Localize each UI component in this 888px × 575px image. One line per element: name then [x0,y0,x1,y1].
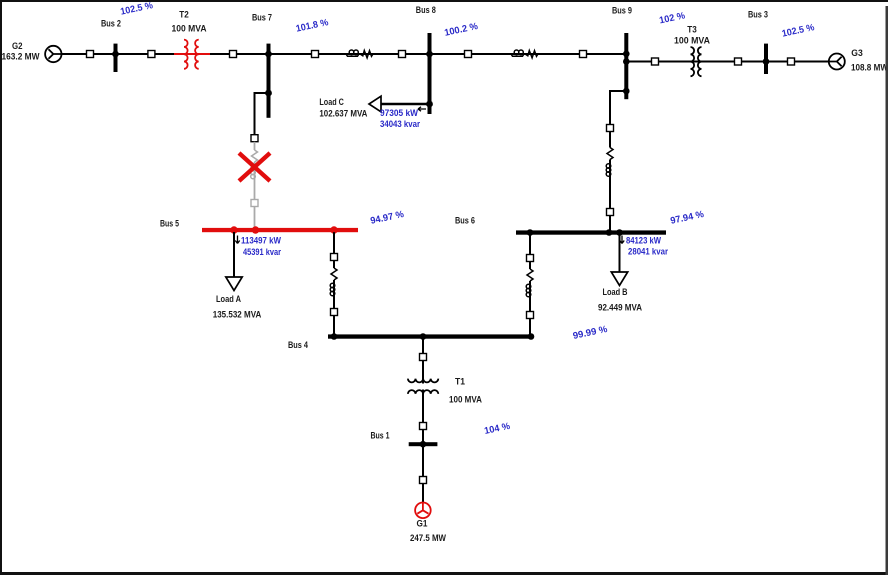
svg-text:247.5 MW: 247.5 MW [410,533,446,544]
svg-text:100 MVA: 100 MVA [172,23,207,34]
breaker Bus1-G1 [420,477,427,484]
breaker Bus9-T3 [652,58,659,65]
node Bus6 junction left [527,229,534,236]
bus Bus 1 [371,431,438,447]
svg-text:Bus 1: Bus 1 [371,431,391,442]
node Bus6 junction bus9 branch [606,229,613,236]
transformer T3 100 MVA [674,24,710,76]
frame border [0,0,888,2]
bus Bus 9 [612,5,632,99]
transformer T1 100 MVA [408,377,482,406]
node Bus4 junction right [528,333,535,340]
breaker Bus5 branch bottom [331,309,338,316]
breaker Bus6 branch top [527,255,534,262]
bus Bus 3 [748,9,768,74]
svg-text:135.532 MVA: 135.532 MVA [213,310,262,321]
node Bus9 junction T3 [623,58,630,65]
svg-text:100 MVA: 100 MVA [674,35,710,46]
line impedance coil (Bus6-Bus4) [526,284,531,297]
node Bus9 junction branch [623,88,630,95]
wire Bus9 to G3 line [626,61,829,63]
node Bus5 junction grey line [252,226,259,233]
node Bus5 junction loadA [230,226,237,233]
line impedance grey resistor [252,150,258,162]
svg-text:Bus 2: Bus 2 [101,18,121,29]
label Load C flow values [380,107,426,130]
breaker T2-Bus7 [230,51,237,58]
line impedance grey coil [251,166,256,179]
load Load A [213,232,262,321]
breaker line78-Bus8 [399,51,406,58]
load Load C arrow [319,96,429,119]
bus Bus 4 [288,334,532,351]
svg-text:28041 kvar: 28041 kvar [628,247,668,258]
generator G2 [2,41,62,63]
node Bus3 junction [763,58,770,65]
line impedance L78 coil [346,50,359,56]
svg-text:G1: G1 [417,519,429,530]
breaker Bus9 branch bottom [607,209,614,216]
node Bus7 junction branch [265,90,272,97]
wire de-energized grey to Bus5 [254,142,256,228]
svg-text:97305 kW: 97305 kW [380,108,418,119]
breaker T1-Bus1 [420,423,427,430]
svg-text:G2: G2 [12,41,23,52]
breaker Bus5 branch top [331,254,338,261]
svg-text:Bus 8: Bus 8 [416,5,436,16]
load Load B [598,234,642,314]
bus Bus 8 [416,5,436,114]
line impedance resistor (Bus9-Bus6) [607,148,613,160]
breaker T3-Bus3 [735,58,742,65]
label Load B flow values [620,236,668,258]
svg-text:Bus 6: Bus 6 [455,215,475,226]
breaker Bus7 branch [251,135,258,142]
generator G3 [829,48,888,73]
transformer T2 100 MVA [172,9,207,68]
svg-text:100 MVA: 100 MVA [449,395,482,406]
wire Bus6 to Bus4 branch [529,235,531,335]
svg-text:Bus 7: Bus 7 [252,12,272,23]
svg-text:113497 kW: 113497 kW [241,236,281,247]
breaker Bus8-line89 [465,51,472,58]
svg-text:G3: G3 [851,48,863,59]
svg-text:T3: T3 [687,24,697,35]
line impedance L89 coil [511,50,524,56]
breaker Bus3-G3 [788,58,795,65]
bus Bus 2 [101,18,121,72]
breaker Bus6 branch bottom [527,312,534,319]
wire Bus5 to Bus4 branch [333,232,335,334]
svg-text:Bus 5: Bus 5 [160,218,180,229]
svg-text:Bus 3: Bus 3 [748,9,768,20]
bus Bus 5 (red, energized fault) [160,218,358,232]
svg-text:Load B: Load B [603,287,628,298]
svg-text:102.637 MVA: 102.637 MVA [319,108,367,119]
svg-text:84123 kW: 84123 kW [626,236,661,247]
svg-text:Bus 4: Bus 4 [288,340,309,351]
wire T2 red line segment [174,53,210,55]
line impedance coil (Bus5-Bus4) [330,283,335,296]
breaker G2-Bus2 [87,51,94,58]
svg-text:108.8 MW: 108.8 MW [851,62,888,73]
breaker line89-Bus9 [580,51,587,58]
node Bus5 junction branch [330,226,337,233]
line impedance coil (Bus9-Bus6) [606,164,611,177]
svg-text:Bus 9: Bus 9 [612,5,632,16]
node Bus6 junction loadB [616,229,623,236]
wire Bus9 to Bus6 branch [610,91,626,230]
bus Bus 6 [455,215,666,234]
node Bus8 junction loadC [426,101,433,108]
node Bus1 junction [420,441,427,448]
node Bus2 junction [112,51,119,58]
line impedance resistor (Bus5-Bus4) [331,268,337,280]
node Bus8 junction top [426,51,433,58]
node Bus9 junction main [623,51,630,58]
wire Bus7 branch jog [255,93,269,135]
node Bus7 junction top [265,51,272,58]
label Load A flow values [235,236,281,259]
svg-text:163.2 MW: 163.2 MW [2,52,40,63]
breaker Bus4-T1 [420,354,427,361]
svg-text:34043 kvar: 34043 kvar [380,119,420,130]
bus Bus 7 [252,12,272,117]
breaker Bus7-line78 [312,51,319,58]
svg-text:T2: T2 [179,9,189,20]
svg-text:92.449 MVA: 92.449 MVA [598,303,642,314]
breaker Bus2-T2 [148,51,155,58]
fault marker red X [239,153,270,181]
svg-text:Load C: Load C [319,97,344,108]
svg-text:Load A: Load A [216,294,241,305]
line impedance L89 resistor [526,51,539,58]
line impedance L78 resistor [361,51,373,58]
node Bus4 junction left [331,333,338,340]
svg-text:T1: T1 [455,377,466,388]
breaker Bus9 branch top [607,125,614,132]
svg-text:45391 kvar: 45391 kvar [243,247,281,258]
breaker grey open [251,200,258,207]
wire main line G2 to Bus9 [61,53,626,55]
node Bus4 junction T1 [420,333,427,340]
generator G1 [410,503,446,544]
wire Bus4 to T1 [422,339,424,503]
line impedance resistor (Bus6-Bus4) [527,269,533,281]
